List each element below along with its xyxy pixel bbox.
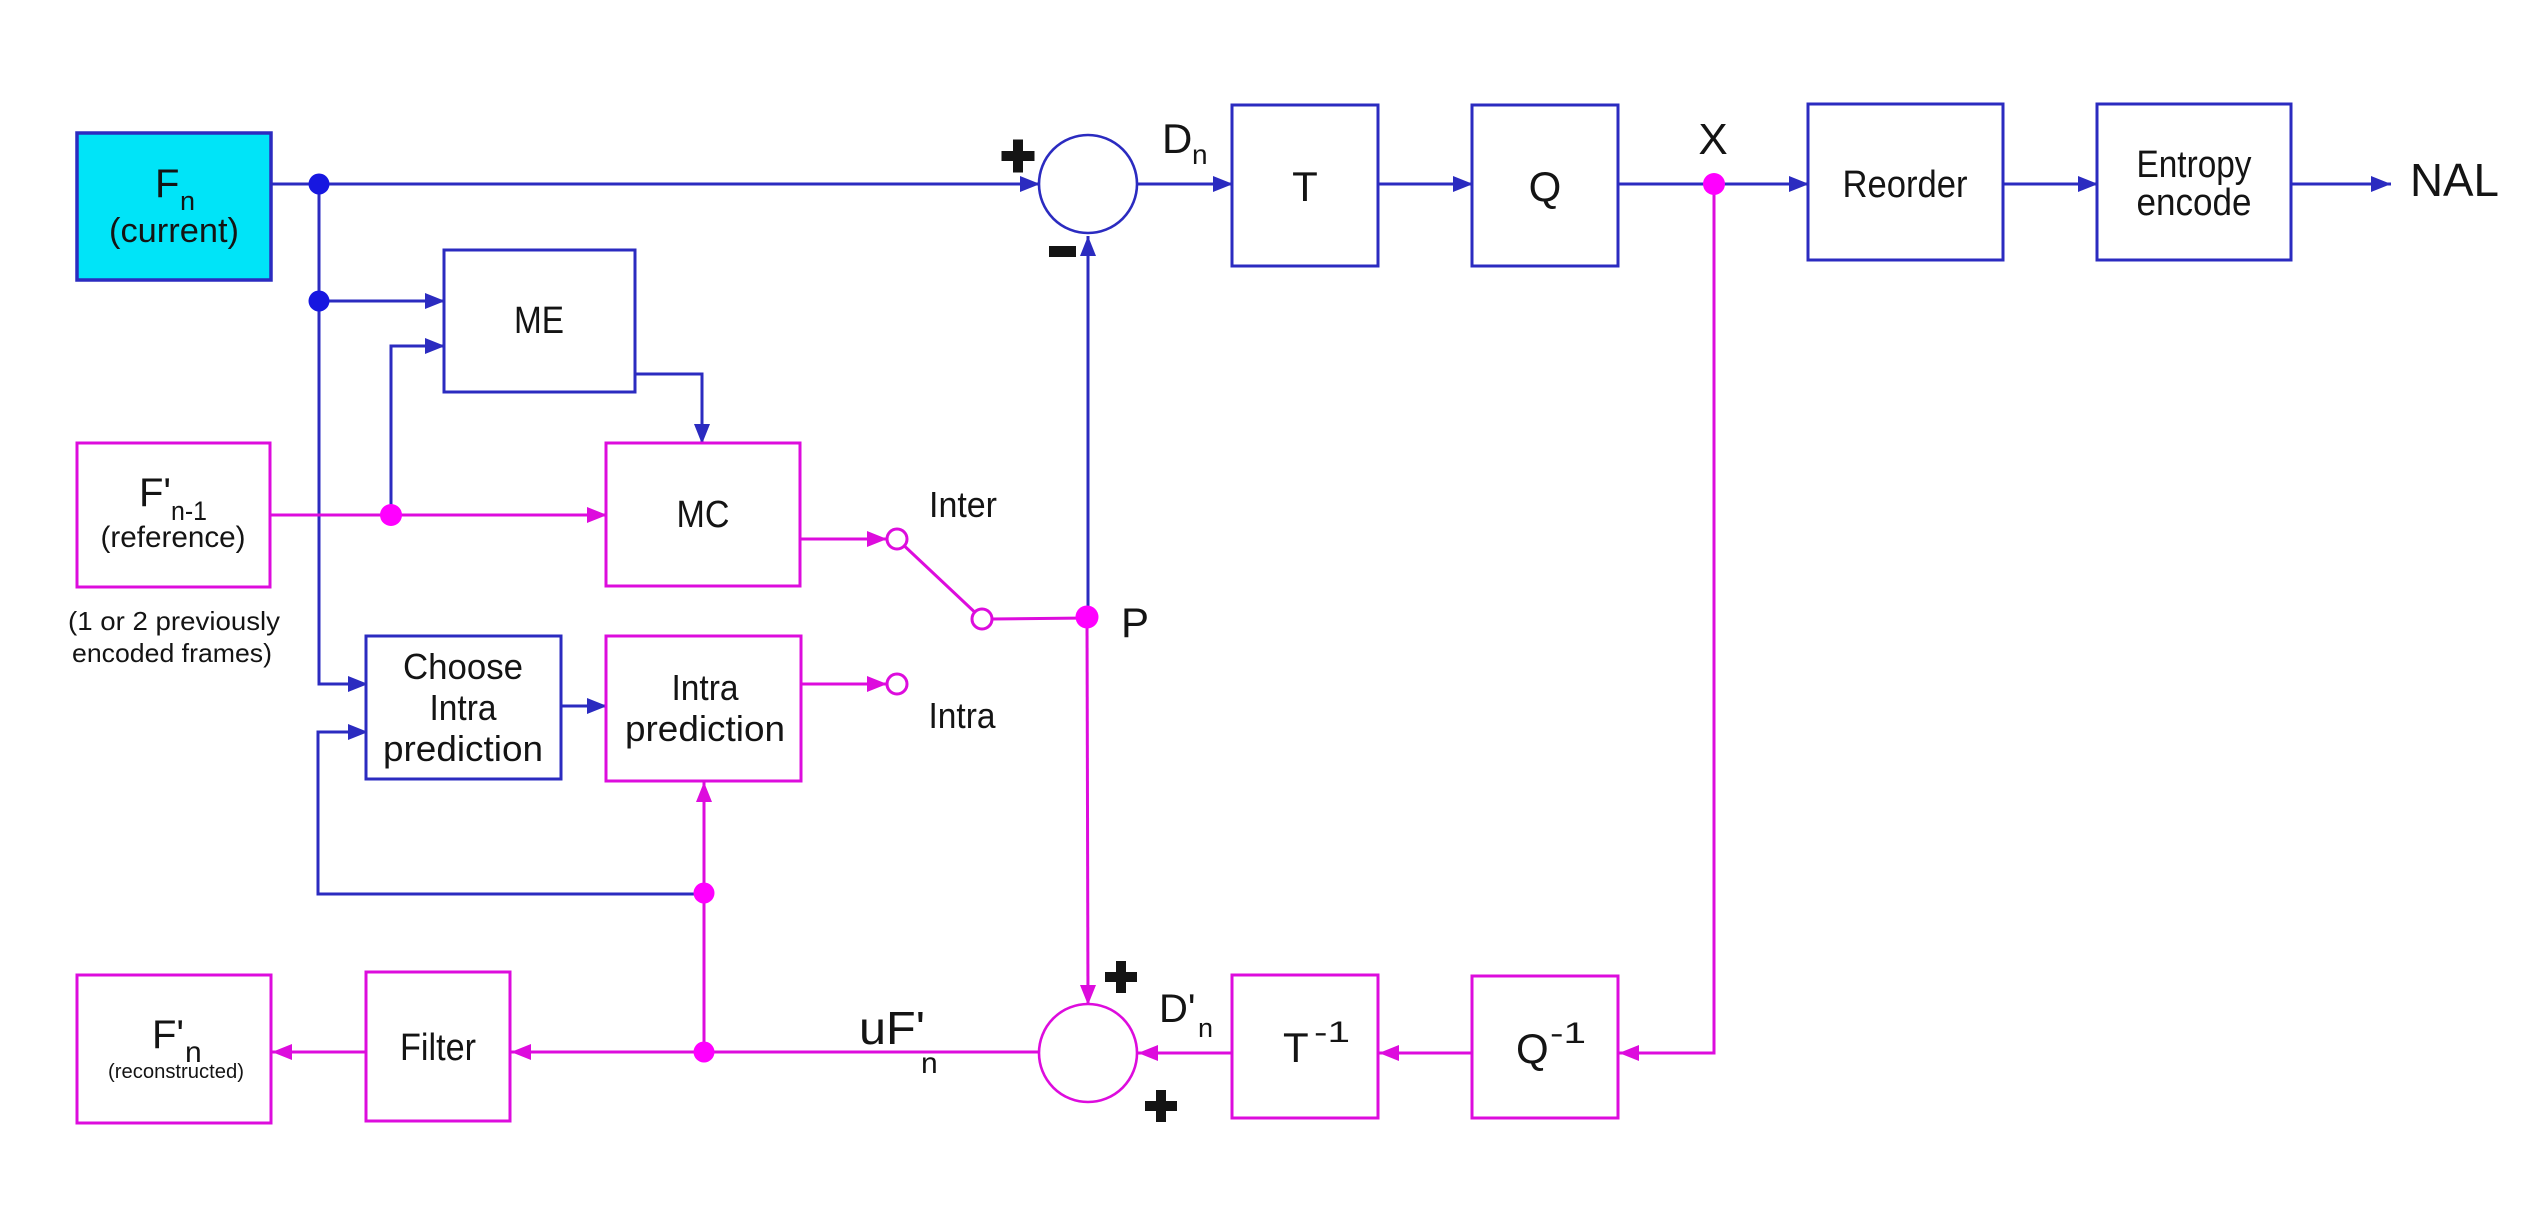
svg-text:X: X [1698,115,1727,164]
svg-text:Entropy: Entropy [2137,144,2252,186]
svg-text:n: n [921,1047,938,1080]
svg-text:Intra: Intra [430,687,498,728]
svg-text:prediction: prediction [383,728,543,769]
svg-text:(reference): (reference) [101,521,246,554]
svg-text:Inter: Inter [929,484,997,525]
svg-text:D: D [1162,115,1192,162]
svg-text:(1 or 2 previously: (1 or 2 previously [68,606,280,636]
svg-text:Choose: Choose [403,646,523,687]
svg-text:prediction: prediction [625,708,785,749]
svg-text:MC: MC [677,494,730,536]
svg-text:T: T [1283,1024,1309,1071]
svg-text:uF': uF' [859,1002,925,1054]
svg-text:-1: -1 [1550,1017,1586,1050]
svg-text:-1: -1 [1314,1016,1350,1049]
svg-text:Q: Q [1529,163,1562,210]
svg-text:F': F' [152,1013,184,1057]
svg-text:Filter: Filter [400,1027,476,1069]
svg-text:Q: Q [1516,1025,1549,1072]
svg-text:Reorder: Reorder [1843,164,1968,206]
svg-text:Intra: Intra [929,695,997,736]
svg-text:T: T [1292,163,1318,210]
svg-text:encoded frames): encoded frames) [72,638,272,668]
svg-text:encode: encode [2137,182,2252,224]
svg-text:ME: ME [514,300,564,342]
svg-text:n: n [1198,1013,1213,1043]
svg-text:F': F' [139,471,171,515]
svg-text:n: n [1192,139,1208,170]
svg-text:Intra: Intra [672,667,740,708]
svg-text:(reconstructed): (reconstructed) [108,1061,244,1083]
svg-text:P: P [1121,599,1149,646]
svg-text:NAL: NAL [2410,154,2499,206]
svg-text:(current): (current) [109,212,239,250]
svg-text:D': D' [1159,987,1196,1031]
svg-text:F: F [155,162,179,206]
